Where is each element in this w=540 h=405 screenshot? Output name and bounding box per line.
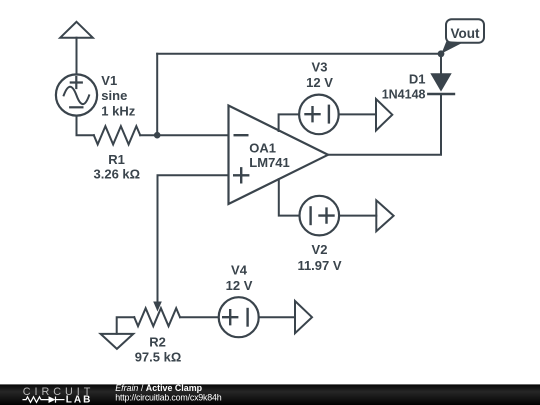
diode D1 triangle — [430, 73, 451, 91]
wire op-amp top supply stub — [279, 114, 299, 131]
svg-text:sine: sine — [101, 88, 127, 103]
wire D1 to Vout node — [440, 54, 442, 74]
wire V4 to port — [259, 316, 295, 318]
wire V2 to port — [339, 215, 376, 217]
source V4 circle — [219, 297, 259, 337]
wire op-amp bottom supply stub — [279, 179, 300, 215]
svg-text:R2: R2 — [149, 335, 166, 350]
svg-text:V1: V1 — [101, 73, 117, 88]
potentiometer R2 zigzag — [134, 308, 180, 326]
V2 plus sign — [320, 209, 334, 223]
svg-text:11.97 V: 11.97 V — [297, 258, 341, 273]
svg-text:OA1: OA1 — [249, 140, 276, 155]
resistor R1 zigzag — [94, 126, 140, 144]
source V2 circle — [300, 196, 340, 236]
svg-text:http://circuitlab.com/cx9k84h: http://circuitlab.com/cx9k84h — [115, 392, 222, 402]
svg-text:LM741: LM741 — [249, 155, 289, 170]
source V3 circle — [299, 95, 339, 135]
svg-text:V2: V2 — [312, 242, 328, 257]
source V1 circle — [56, 74, 97, 115]
ground symbol R2 — [101, 334, 134, 349]
V3 bar — [328, 106, 330, 123]
port arrow V4 — [295, 301, 312, 333]
op-amp U1 triangle — [229, 106, 329, 205]
V1 plus sign — [71, 77, 82, 88]
feedback wire node A up — [156, 54, 158, 135]
wire R2 wiper — [117, 317, 135, 334]
feedback wire top to Vout — [157, 53, 441, 55]
svg-text:3.26 kΩ: 3.26 kΩ — [94, 167, 141, 182]
wire R2 to V4 — [180, 316, 219, 318]
svg-text:12 V: 12 V — [306, 75, 333, 90]
svg-text:V3: V3 — [312, 59, 328, 74]
svg-text:Vout: Vout — [451, 26, 480, 41]
svg-text:D1: D1 — [409, 72, 426, 87]
junction node A dot — [154, 132, 161, 139]
port arrow V2 — [376, 200, 393, 231]
V1 sine wave — [64, 87, 89, 104]
svg-text:LAB: LAB — [66, 395, 91, 405]
V4 plus sign — [223, 310, 237, 324]
op-amp plus symbol — [234, 168, 248, 182]
wire V1 to R1 — [77, 116, 94, 136]
svg-text:1 kHz: 1 kHz — [101, 103, 135, 118]
logo squiggle resistor-diode — [23, 397, 65, 403]
wire op-amp output — [328, 94, 441, 155]
V2 bar — [309, 207, 311, 224]
wire R1 to op-amp minus input — [140, 134, 228, 136]
diode D1 cathode bar — [428, 93, 454, 95]
wire flag to V1 — [76, 38, 78, 75]
svg-text:1N4148: 1N4148 — [382, 88, 426, 102]
svg-text:V4: V4 — [231, 263, 248, 278]
wire plus input — [158, 175, 229, 302]
junction Vout dot — [438, 50, 445, 57]
Vout flag box — [446, 19, 484, 43]
svg-text:12 V: 12 V — [226, 278, 253, 293]
wiper arrowhead R2 — [153, 302, 162, 312]
svg-text:R1: R1 — [108, 152, 125, 167]
svg-text:97.5 kΩ: 97.5 kΩ — [135, 350, 182, 365]
wire V3 to port — [339, 113, 376, 115]
V4 bar — [246, 309, 248, 326]
Vout flag tail — [442, 41, 464, 54]
footer bar — [0, 384, 540, 405]
power flag triangle above V1 — [60, 22, 93, 38]
op-amp minus symbol — [235, 134, 248, 136]
port arrow V3 — [376, 99, 392, 131]
V1 minus sign — [70, 106, 82, 108]
V3 plus sign — [306, 107, 320, 121]
logo diode triangle — [49, 396, 56, 403]
